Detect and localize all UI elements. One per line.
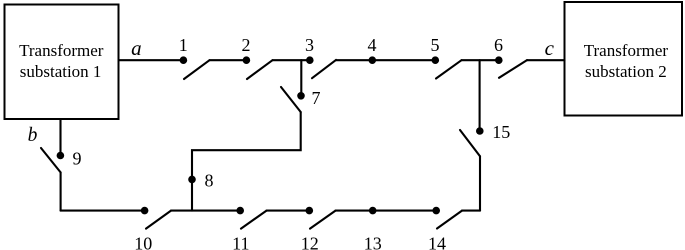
svg-text:14: 14 [428, 234, 446, 250]
svg-text:5: 5 [431, 35, 440, 55]
svg-text:8: 8 [205, 170, 214, 190]
svg-text:10: 10 [134, 234, 152, 250]
svg-text:2: 2 [242, 35, 251, 55]
svg-text:c: c [545, 36, 555, 60]
svg-text:9: 9 [73, 149, 82, 169]
svg-text:13: 13 [364, 234, 382, 250]
svg-text:7: 7 [312, 88, 321, 108]
svg-text:4: 4 [368, 35, 377, 55]
svg-text:substation 2: substation 2 [585, 62, 667, 81]
svg-text:substation 1: substation 1 [20, 62, 102, 81]
svg-text:Transformer: Transformer [584, 41, 669, 60]
svg-text:a: a [131, 36, 142, 60]
svg-text:Transformer: Transformer [19, 41, 104, 60]
svg-text:15: 15 [492, 122, 510, 142]
svg-text:6: 6 [494, 35, 503, 55]
svg-text:11: 11 [232, 234, 249, 250]
svg-text:3: 3 [305, 35, 314, 55]
svg-text:1: 1 [179, 35, 188, 55]
svg-text:b: b [28, 125, 38, 146]
svg-text:12: 12 [301, 234, 319, 250]
